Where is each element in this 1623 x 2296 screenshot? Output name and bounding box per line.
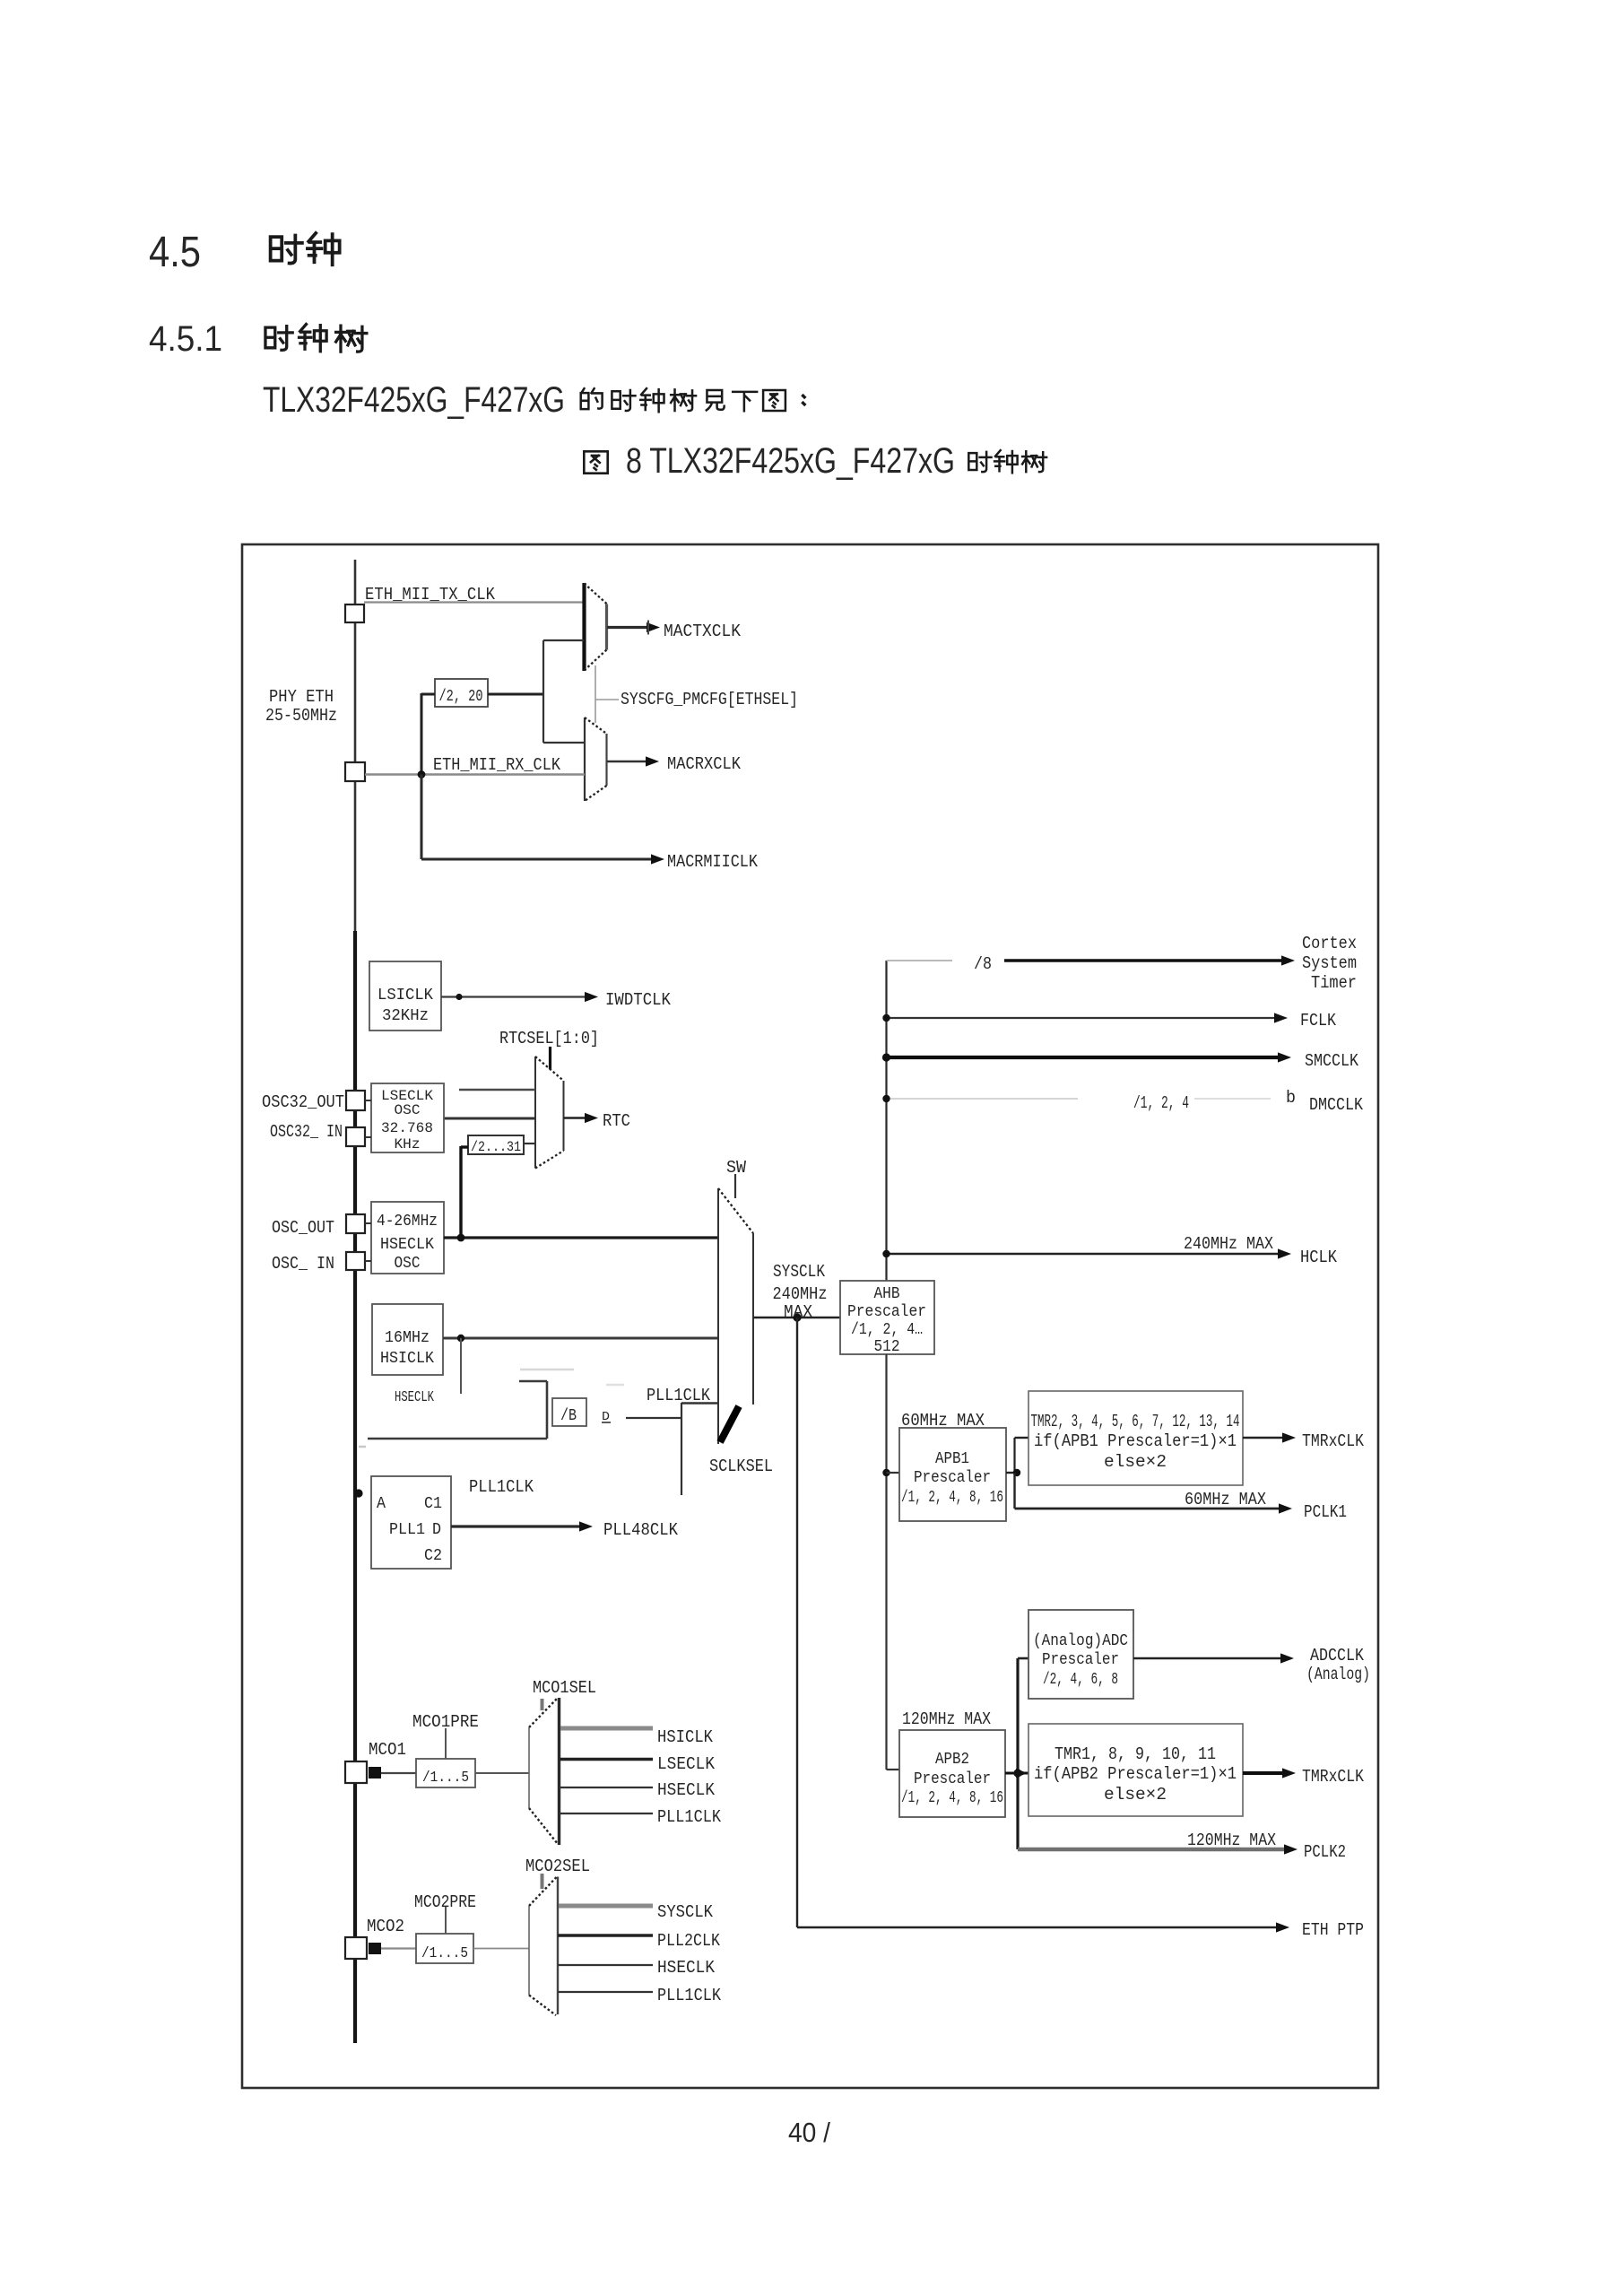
wire APB1 output <box>1006 1438 1028 1473</box>
mux U6 MCO2SEL mux <box>529 1877 558 2016</box>
mux U4 SW system clock mux <box>718 1188 753 1444</box>
svg-text:SYSCLK: SYSCLK <box>773 1262 825 1282</box>
wire HSE to divider <box>461 1146 468 1238</box>
divider box MCO1 /1...5 <box>416 1759 475 1787</box>
ethsel bracket <box>543 640 585 743</box>
svg-text:RTC: RTC <box>603 1111 630 1131</box>
svg-text:(Analog)ADC: (Analog)ADC <box>1033 1632 1128 1650</box>
svg-text:4-26MHz: 4-26MHz <box>377 1213 438 1231</box>
junction IWDT node <box>456 994 462 1000</box>
divider box /2...31 <box>468 1135 524 1155</box>
svg-text:PLL1CLK: PLL1CLK <box>657 1807 722 1827</box>
svg-text:Prescaler: Prescaler <box>847 1303 926 1321</box>
svg-text:Prescaler: Prescaler <box>914 1770 991 1788</box>
AHB output bus upper <box>885 961 887 1281</box>
svg-text:HSECLK: HSECLK <box>657 1958 716 1978</box>
svg-text:PLL1CLK: PLL1CLK <box>657 1986 722 2005</box>
label ADCCLK (Analog) <box>1306 1646 1370 1684</box>
label D underlined <box>602 1410 611 1424</box>
wire MACTXCLK output <box>607 621 660 635</box>
ghost dash remnant <box>359 1446 366 1448</box>
svg-text:MACRMIICLK: MACRMIICLK <box>667 852 759 872</box>
junction SYSCLK node <box>793 1313 801 1321</box>
MCU pin rail upper segment <box>354 560 357 931</box>
svg-text:4.5: 4.5 <box>149 229 201 276</box>
wire APB2 output with arrow <box>1005 1769 1028 1778</box>
svg-text:KHz: KHz <box>395 1136 421 1152</box>
pin OSC_IN <box>346 1252 365 1270</box>
junction HSE divider node <box>457 1234 465 1242</box>
wire SYSCLK output <box>753 1317 840 1319</box>
junction APB2 out node <box>1013 1769 1021 1777</box>
svg-text:ADCCLK: ADCCLK <box>1310 1646 1365 1665</box>
wire PLL2CLK input MCO2 <box>558 1934 653 1936</box>
junction APB1 out node <box>1013 1469 1020 1476</box>
select line RTCSEL <box>549 1047 551 1069</box>
svg-text:512: 512 <box>874 1338 900 1356</box>
wire RTC mux input LSI <box>459 1089 535 1091</box>
wire SYSCLK input MCO2 <box>559 1904 653 1909</box>
svg-text:else×2: else×2 <box>1104 1785 1167 1805</box>
wire PLL1CLK input MCO1 <box>560 1813 653 1814</box>
block HSICLK 16MHz <box>372 1304 443 1375</box>
svg-text:FCLK: FCLK <box>1300 1011 1337 1031</box>
svg-text:/1...5: /1...5 <box>421 1945 468 1962</box>
svg-text:OSC32_OUT: OSC32_OUT <box>262 1092 344 1112</box>
svg-text:SW: SW <box>726 1158 747 1178</box>
svg-text:ETH_MII_RX_CLK: ETH_MII_RX_CLK <box>433 755 561 775</box>
pin OSC32_IN <box>346 1127 365 1146</box>
svg-text:C2: C2 <box>424 1547 442 1565</box>
junction FCLK node <box>882 1014 890 1022</box>
svg-text:Cortex: Cortex <box>1302 934 1357 953</box>
svg-text:MACRXCLK: MACRXCLK <box>667 754 742 774</box>
wire junction to divider <box>421 693 435 775</box>
AHB bus lower segment <box>887 1354 900 1770</box>
svg-text:MCO2: MCO2 <box>367 1917 404 1936</box>
svg-text:120MHz MAX: 120MHz MAX <box>1187 1831 1277 1850</box>
wire APB1 input stub <box>887 1472 900 1474</box>
wire MCO2 to divider <box>381 1947 416 1949</box>
pin MCO2 <box>345 1937 381 1959</box>
PLL bracket <box>368 1381 547 1439</box>
svg-text:OSC_OUT: OSC_OUT <box>272 1218 334 1238</box>
svg-text:MCO1SEL: MCO1SEL <box>533 1678 596 1698</box>
wire RTC mux input LSE <box>444 1118 535 1120</box>
svg-text:System: System <box>1302 953 1357 973</box>
wire PLL48CLK <box>451 1521 593 1531</box>
svg-text:MAX: MAX <box>784 1302 813 1322</box>
wire divider to ethsel bracket <box>488 693 544 696</box>
junction SMCCLK node <box>882 1053 890 1061</box>
stub OSC_IN to HSE block <box>365 1260 371 1262</box>
svg-text:PLL2CLK: PLL2CLK <box>657 1931 721 1951</box>
svg-text:HSECLK: HSECLK <box>657 1780 716 1800</box>
svg-text:TMRxCLK: TMRxCLK <box>1302 1767 1365 1787</box>
junction RX node <box>418 770 426 778</box>
svg-text:RTCSEL[1:0]: RTCSEL[1:0] <box>499 1029 599 1048</box>
wire PLL1CLK to SW mux <box>681 1402 718 1405</box>
svg-text:SMCCLK: SMCCLK <box>1305 1051 1359 1071</box>
svg-text:PHY ETH: PHY ETH <box>269 687 334 707</box>
select line MCO2PRE <box>445 1907 447 1934</box>
svg-text:IWDTCLK: IWDTCLK <box>605 990 672 1010</box>
wire HCLK <box>887 1248 1292 1258</box>
svg-text:120MHz MAX: 120MHz MAX <box>902 1709 992 1729</box>
block APB1 Prescaler <box>899 1428 1006 1521</box>
stub OSC_OUT to HSE block <box>365 1222 371 1224</box>
svg-text:/2, 20: /2, 20 <box>439 688 483 706</box>
svg-text:MCO1: MCO1 <box>369 1740 406 1760</box>
svg-text:32.768: 32.768 <box>381 1120 433 1136</box>
figure border frame <box>242 544 1378 2088</box>
svg-text:PCLK2: PCLK2 <box>1304 1842 1346 1862</box>
wire SMCCLK <box>887 1052 1292 1062</box>
svg-text:C1: C1 <box>424 1495 442 1513</box>
select stub MCO1SEL <box>541 1699 544 1710</box>
svg-text:HSICLK: HSICLK <box>380 1350 434 1368</box>
wire HSECLK input MCO2 <box>558 1964 653 1966</box>
svg-text:TLX32F425xG_F427xG: TLX32F425xG_F427xG <box>263 380 565 420</box>
svg-text:A: A <box>377 1495 386 1513</box>
svg-text:OSC: OSC <box>395 1255 421 1273</box>
svg-text:SYSCFG_PMCFG[ETHSEL]: SYSCFG_PMCFG[ETHSEL] <box>621 690 798 709</box>
svg-text:/2, 4, 6, 8: /2, 4, 6, 8 <box>1043 1671 1118 1689</box>
svg-text:PCLK1: PCLK1 <box>1304 1502 1347 1522</box>
svg-text:(Analog): (Analog) <box>1306 1665 1370 1684</box>
svg-text:ETH PTP: ETH PTP <box>1302 1920 1364 1940</box>
wire ADCCLK <box>1133 1653 1294 1663</box>
wire HSECLK to SW mux <box>444 1236 718 1239</box>
svg-text:/1, 2, 4: /1, 2, 4 <box>1133 1093 1189 1113</box>
select stub MCO2SEL <box>541 1874 544 1889</box>
svg-text:OSC32_ IN: OSC32_ IN <box>270 1122 343 1142</box>
svg-text:if(APB1 Prescaler=1)×1: if(APB1 Prescaler=1)×1 <box>1034 1431 1237 1451</box>
stub below HSI junction <box>460 1338 462 1394</box>
wire PLL1CLK riser <box>681 1403 682 1495</box>
page number 40 / <box>788 2117 830 2148</box>
divider box /B <box>552 1398 586 1426</box>
svg-text:/B: /B <box>560 1407 577 1425</box>
svg-text:4.5.1: 4.5.1 <box>149 319 222 359</box>
heading CJK 时钟树 <box>265 325 367 352</box>
pin OSC32_OUT <box>346 1091 365 1110</box>
svg-text:APB2: APB2 <box>935 1751 969 1769</box>
svg-text:HSECLK: HSECLK <box>380 1236 434 1254</box>
junction PLL1 input node <box>354 1489 362 1497</box>
block APB2 Prescaler <box>899 1730 1005 1817</box>
svg-text:HSICLK: HSICLK <box>657 1727 714 1747</box>
ghost line remnant 2 <box>606 1384 624 1387</box>
body line TLX32F425xG_F427xG <box>263 380 565 420</box>
select line MCO1PRE <box>445 1728 447 1759</box>
divider box /2, 20 <box>435 679 488 707</box>
wire TMRxCLK APB1 <box>1243 1432 1296 1442</box>
stub OSC32_IN to LSE block <box>365 1136 371 1138</box>
wire ETH_MII_TX_CLK to mux1 <box>364 601 584 603</box>
svg-text:b: b <box>1286 1088 1296 1108</box>
svg-text:PLL1CLK: PLL1CLK <box>469 1477 534 1497</box>
svg-text:240MHz MAX: 240MHz MAX <box>1184 1234 1274 1254</box>
svg-text:LSECLK: LSECLK <box>657 1754 716 1774</box>
wire PCLK1 <box>1015 1473 1293 1514</box>
svg-text:Timer: Timer <box>1311 973 1357 993</box>
svg-text:/1...5: /1...5 <box>422 1770 469 1787</box>
svg-text:SYSCLK: SYSCLK <box>657 1902 714 1922</box>
junction HCLK node <box>882 1250 890 1257</box>
wire IWDTCLK <box>441 992 598 1002</box>
wire MCO1 to divider <box>381 1772 416 1774</box>
wire divider to MCO1 mux <box>475 1772 529 1774</box>
svg-text:/1, 2, 4, 8, 16: /1, 2, 4, 8, 16 <box>901 1489 1003 1507</box>
block TMR1 timers APB2 <box>1028 1724 1243 1816</box>
wire MACRMIICLK <box>421 775 664 865</box>
svg-text:OSC: OSC <box>395 1102 421 1118</box>
wire divider to MCO2 mux <box>473 1948 529 1950</box>
wire FCLK <box>887 1013 1289 1022</box>
svg-text:APB1: APB1 <box>935 1450 969 1468</box>
caption CJK 时钟树 <box>968 450 1046 473</box>
wire DMCCLK faint <box>887 1098 1271 1100</box>
mux U5 MCO1SEL mux <box>529 1698 560 1845</box>
svg-text:40 /: 40 / <box>788 2117 830 2148</box>
svg-text:32KHz: 32KHz <box>382 1007 429 1025</box>
block AHB Prescaler <box>840 1281 934 1356</box>
svg-text:LSICLK: LSICLK <box>378 987 433 1004</box>
junction HSI node <box>457 1335 464 1342</box>
svg-text:PLL48CLK: PLL48CLK <box>603 1520 679 1540</box>
wire RTC output <box>564 1113 599 1123</box>
svg-text:60MHz MAX: 60MHz MAX <box>1185 1490 1267 1509</box>
label SYSCLK 240MHz MAX <box>773 1262 828 1322</box>
junction DMCCLK node <box>882 1095 890 1102</box>
pin ETH_MII_RX_CLK <box>345 762 365 781</box>
SCLKSEL bold slash <box>720 1406 739 1442</box>
block TMR2 timers APB1 <box>1028 1391 1243 1485</box>
pin OSC_OUT <box>346 1214 365 1233</box>
wire ETH_MII_RX_CLK to mux2 <box>365 773 585 775</box>
select line SYSCFG_PMCFG <box>595 665 619 723</box>
heading CJK 时钟 <box>271 233 340 265</box>
svg-text:Prescaler: Prescaler <box>914 1469 991 1487</box>
svg-text:/1, 2, 4, 8, 16: /1, 2, 4, 8, 16 <box>901 1789 1003 1807</box>
body CJK 的时钟树见下图： <box>581 388 804 412</box>
wire PLL1CLK input MCO2 <box>558 1991 653 1993</box>
figure caption 图 8 TLX32F425xG_F427xG <box>584 441 955 481</box>
svg-text:HCLK: HCLK <box>1300 1248 1338 1267</box>
block PLL1 <box>371 1476 451 1569</box>
block HSECLK OSC 4-26MHz <box>371 1202 444 1274</box>
junction APB1 node <box>882 1469 890 1476</box>
wire LSECLK input MCO1 <box>560 1758 653 1761</box>
select line SW <box>734 1174 736 1198</box>
label Cortex System Timer <box>1302 934 1357 993</box>
SYSCLK bus down <box>797 1318 1289 1933</box>
wire TMRxCLK APB2 <box>1243 1768 1296 1778</box>
wire divider to RTC mux <box>524 1143 535 1144</box>
wire MACRXCLK output <box>607 756 659 766</box>
svg-text:8 TLX32F425xG_F427xG: 8 TLX32F425xG_F427xG <box>626 441 955 481</box>
svg-text:SCLKSEL: SCLKSEL <box>709 1457 773 1476</box>
svg-text:AHB: AHB <box>874 1285 900 1303</box>
svg-text:240MHz: 240MHz <box>773 1284 828 1304</box>
svg-text:TMR2, 3, 4, 5, 6, 7, 12, 13, 1: TMR2, 3, 4, 5, 6, 7, 12, 13, 14 <box>1031 1412 1240 1431</box>
mux U3 RTC select mux <box>535 1057 564 1169</box>
stub OSC32_OUT to LSE block <box>365 1100 371 1101</box>
document heading 4.5.1 <box>149 319 222 359</box>
mux U2 MACRX select mux <box>585 717 607 801</box>
svg-text:PLL1CLK: PLL1CLK <box>647 1386 711 1405</box>
svg-text:PLL1: PLL1 <box>389 1521 425 1539</box>
svg-text:TMRxCLK: TMRxCLK <box>1302 1431 1365 1451</box>
svg-text:Prescaler: Prescaler <box>1042 1651 1119 1669</box>
svg-text:HSECLK: HSECLK <box>395 1389 435 1406</box>
svg-text:OSC_ IN: OSC_ IN <box>272 1254 334 1274</box>
pin MCO1 <box>345 1761 381 1783</box>
svg-text:if(APB2 Prescaler=1)×1: if(APB2 Prescaler=1)×1 <box>1034 1764 1237 1784</box>
wire Cortex System Timer arrow <box>1004 955 1295 965</box>
svg-text:/2...31: /2...31 <box>471 1139 521 1155</box>
svg-text:D: D <box>432 1521 441 1539</box>
svg-text:16MHz: 16MHz <box>385 1329 430 1347</box>
svg-text:/8: /8 <box>974 954 992 974</box>
label PHY ETH 25-50MHz <box>265 687 337 726</box>
wire HSICLK input MCO1 <box>560 1726 653 1731</box>
wire D to PLL1CLK riser <box>626 1417 681 1419</box>
svg-text:DMCCLK: DMCCLK <box>1309 1095 1364 1115</box>
svg-text:25-50MHz: 25-50MHz <box>265 706 337 726</box>
document heading 4.5 <box>149 229 201 276</box>
svg-text:TMR1, 8, 9, 10, 11: TMR1, 8, 9, 10, 11 <box>1055 1744 1216 1764</box>
wire HSECLK input MCO1 <box>560 1787 653 1788</box>
block LSECLK OSC 32.768KHz <box>371 1083 444 1152</box>
svg-text:MACTXCLK: MACTXCLK <box>664 622 742 641</box>
block LSICLK 32KHz <box>369 961 441 1031</box>
wire HSICLK to SW mux <box>443 1337 718 1340</box>
svg-text:/1, 2, 4…: /1, 2, 4… <box>851 1321 923 1339</box>
wire PCLK2 <box>1018 1844 1298 1854</box>
wire /8 thin segment <box>887 960 953 961</box>
wire ADC input stub <box>1018 1657 1028 1660</box>
svg-text:MCO2SEL: MCO2SEL <box>525 1857 590 1876</box>
wire ADC feed riser <box>1016 1658 1019 1849</box>
svg-text:else×2: else×2 <box>1104 1452 1167 1472</box>
MCU pin rail lower segment <box>353 931 357 2043</box>
mux U1 MACTX select mux <box>585 583 608 671</box>
ghost line remnant 1 <box>520 1369 574 1371</box>
pin ETH_MII_TX_CLK <box>345 604 364 622</box>
divider box MCO2 /1...5 <box>416 1934 473 1963</box>
block ADC Prescaler <box>1028 1610 1133 1699</box>
